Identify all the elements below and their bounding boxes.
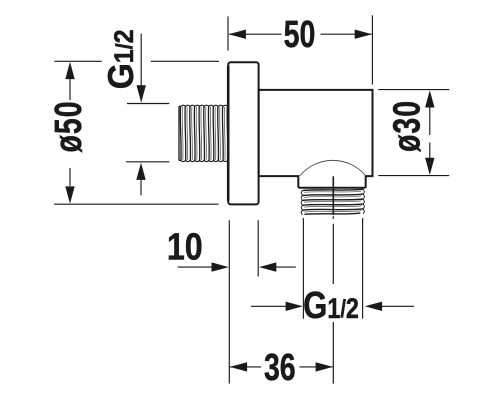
wall thread G1/2 (male, horizontal axis)	[179, 105, 228, 161]
dim G1/2 outlet: right arrow	[382, 305, 415, 307]
svg-text:ø50: ø50	[48, 100, 90, 152]
dim G1/2 outlet: left arrow	[251, 305, 287, 307]
dim G1/2 top: arrow up (below)	[140, 179, 142, 196]
dim o30 (outlet side): extension lines	[378, 89, 449, 91]
dim G1/2 top: extension lines	[127, 103, 169, 105]
dim G1/2 top: arrow down	[140, 34, 142, 87]
dim G1/2 (outlet): extension lines	[302, 218, 304, 319]
svg-text:36: 36	[264, 347, 296, 389]
svg-text:ø30: ø30	[386, 100, 428, 152]
elbow body outline	[259, 90, 373, 188]
dim 50: dimension line + arrows	[229, 33, 282, 35]
dim 10: extension lines	[228, 220, 230, 383]
dim o50 (rosette): extension lines	[54, 60, 101, 62]
dim 50 (top): extension lines	[227, 16, 229, 50]
dim 10: arrow right	[178, 266, 213, 268]
outlet thread G1/2 (bottom)	[301, 189, 364, 215]
svg-text:10: 10	[167, 227, 203, 269]
dim 10: counter arrow	[276, 266, 296, 268]
inner dome arc	[300, 160, 366, 176]
dim o50: arrows	[69, 78, 71, 100]
dim 36: dimension line + arrows	[230, 366, 261, 368]
svg-text:50: 50	[284, 14, 316, 56]
rosette (wall flange, side view)	[228, 62, 258, 204]
dim o30: arrows	[429, 106, 431, 135]
centerline of outlet	[332, 176, 334, 215]
